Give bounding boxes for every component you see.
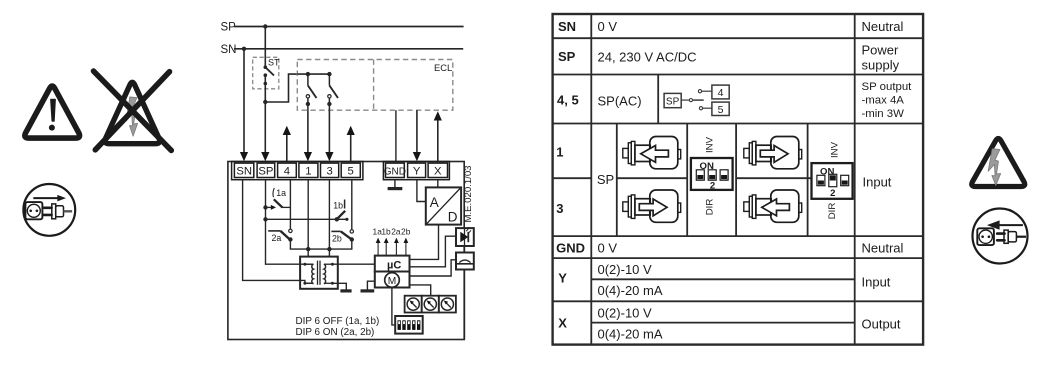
- terminal strip SN SP 4 1 3 5: [232, 162, 363, 180]
- junction ECL bus A: [306, 72, 310, 76]
- wire LED to button: [464, 246, 466, 253]
- wire SP drop lower: [264, 75, 266, 153]
- TABLE: [553, 14, 924, 345]
- DIP switch block: [395, 316, 423, 334]
- transformer T1: [300, 257, 338, 289]
- warning triangle (exclamation): [25, 86, 80, 138]
- crossed-out lightning triangle: [94, 71, 172, 150]
- svg-text:INV: INV: [704, 136, 715, 153]
- svg-text:0(2)-10 V: 0(2)-10 V: [598, 262, 653, 277]
- svg-text:5: 5: [718, 104, 724, 116]
- svg-text:SP: SP: [666, 97, 680, 108]
- svg-text:3: 3: [556, 201, 563, 216]
- converter A/D: [426, 187, 461, 224]
- wire terminal 5 drop: [351, 180, 353, 230]
- row divider 1/3 segments: [553, 177, 592, 179]
- svg-text:SP(AC): SP(AC): [598, 94, 642, 109]
- svg-text:1b: 1b: [381, 227, 391, 237]
- contact dot 1b: [345, 218, 348, 221]
- wire M to DIP switches: [392, 288, 395, 325]
- svg-text:INV: INV: [829, 141, 840, 158]
- arrow terminal X to ECL: [434, 111, 442, 161]
- svg-text:2a: 2a: [391, 227, 401, 237]
- wire A/D to uC: [410, 225, 439, 260]
- wire M to potentiometers: [410, 285, 431, 296]
- junction SP bus: [263, 24, 267, 28]
- actuator icon row3 direction left: [744, 190, 802, 222]
- svg-text:-min 3W: -min 3W: [862, 108, 905, 120]
- svg-text:2: 2: [710, 180, 715, 191]
- svg-text:GND: GND: [384, 166, 406, 177]
- sub divider row Y: [591, 278, 854, 280]
- svg-text:Input: Input: [863, 175, 892, 190]
- junction SN bus: [242, 47, 246, 51]
- wire SN bus: [234, 48, 463, 50]
- svg-text:3: 3: [326, 166, 332, 178]
- svg-text:DIR: DIR: [704, 199, 715, 216]
- SP output selector diagram: [664, 85, 729, 116]
- wire uC to ground: [367, 281, 374, 290]
- svg-text:1b: 1b: [333, 200, 343, 210]
- svg-text:4, 5: 4, 5: [557, 93, 579, 108]
- svg-text:SN: SN: [221, 44, 237, 56]
- arrow ECL to terminal Y: [413, 110, 421, 161]
- sub divider row 4,5: [657, 75, 659, 124]
- svg-text:Y: Y: [413, 166, 421, 178]
- svg-text:ST: ST: [268, 58, 280, 68]
- motor M: [375, 272, 410, 288]
- junction 1b pivot: [335, 217, 339, 221]
- svg-text:Input: Input: [862, 275, 891, 290]
- switch ST: [253, 57, 280, 89]
- wire bus219: [266, 218, 347, 220]
- svg-text:1: 1: [305, 166, 311, 178]
- table texts middle column: [597, 19, 697, 342]
- svg-text:A: A: [430, 195, 439, 210]
- junction SP switch 1a: [263, 205, 267, 209]
- arrow into SN terminal: [240, 152, 248, 161]
- arrow into terminal 3: [325, 152, 333, 161]
- table outer frame: [553, 14, 924, 345]
- switch 2a: [268, 231, 290, 243]
- junction SP bus219: [263, 217, 267, 221]
- push button S1: [456, 253, 474, 270]
- wire transformer to uC: [332, 263, 374, 265]
- ground right of transformer: [340, 289, 351, 292]
- junction 2a output: [288, 237, 292, 241]
- svg-text:DIP 6 ON (2a, 2b): DIP 6 ON (2a, 2b): [296, 327, 375, 338]
- contact circle 2b: [350, 230, 353, 233]
- junction 1 primary: [306, 247, 310, 251]
- svg-text:µC: µC: [387, 259, 401, 271]
- svg-text:0 V: 0 V: [598, 241, 618, 256]
- ground left of uC: [361, 289, 375, 292]
- svg-text:0(4)-20 mA: 0(4)-20 mA: [598, 327, 663, 342]
- wire terminal 1 drop: [307, 180, 309, 257]
- wire SP branch to ECL: [265, 74, 297, 102]
- svg-text:GND: GND: [556, 241, 585, 256]
- svg-text:SP: SP: [258, 166, 273, 178]
- svg-text:DIP 6 OFF (1a, 1b): DIP 6 OFF (1a, 1b): [296, 316, 380, 327]
- disconnect-plug circle icon: [23, 184, 75, 236]
- ICONS-LEFT: [23, 71, 171, 236]
- wire terminal 3 drop: [328, 180, 330, 257]
- svg-text:SP: SP: [221, 22, 237, 34]
- table texts last column: [862, 19, 904, 332]
- wire transformer to ground: [332, 283, 346, 290]
- terminal strip GND Y X: [383, 162, 449, 180]
- terminal labels GND Y X: [384, 166, 442, 178]
- switch ECL contact B: [327, 74, 338, 110]
- svg-text:2b: 2b: [401, 227, 411, 237]
- switch 1b: [333, 200, 345, 220]
- junction ECL bus B: [327, 72, 331, 76]
- svg-text:Y: Y: [558, 271, 567, 286]
- high voltage warning triangle: [972, 139, 1025, 187]
- ICONS-RIGHT: [972, 139, 1028, 264]
- LED D1: [456, 228, 474, 246]
- actuator icon row1 direction right: [744, 137, 802, 169]
- svg-text:24, 230 V AC/DC: 24, 230 V AC/DC: [598, 50, 697, 65]
- table column lines: [590, 14, 592, 345]
- junction SP branch: [263, 100, 267, 104]
- junction 3 primary: [327, 247, 331, 251]
- wire SN drop: [243, 49, 245, 153]
- table row lines: [553, 37, 924, 39]
- svg-text:X: X: [434, 166, 442, 178]
- svg-text:Neutral: Neutral: [862, 19, 904, 34]
- svg-text:4: 4: [718, 87, 724, 99]
- wire SP bus: [234, 26, 464, 28]
- svg-text:2a: 2a: [272, 233, 282, 243]
- wire ECL to terminal 1: [307, 110, 309, 153]
- ground at GND terminal: [388, 180, 403, 189]
- potentiometer bank: [405, 296, 456, 313]
- actuator icon row1 direction left: [623, 137, 681, 169]
- controller ECL box: [297, 60, 453, 111]
- arrow out of terminal 4: [283, 126, 291, 162]
- wire terminal 4 drop: [289, 180, 291, 229]
- svg-text:-max 4A: -max 4A: [862, 95, 905, 107]
- note SP output max min: [862, 81, 913, 120]
- microcontroller uC: [375, 256, 410, 272]
- arrow into terminal 1: [304, 152, 312, 161]
- svg-text:Output: Output: [862, 317, 901, 332]
- svg-text:1a: 1a: [276, 188, 286, 198]
- wire uC to LED: [410, 236, 457, 267]
- svg-text:Neutral: Neutral: [862, 241, 904, 256]
- wire ECL relay bus: [297, 73, 329, 75]
- wire ECL to terminal 3: [328, 110, 330, 153]
- switch ECL contact A: [306, 74, 317, 110]
- DIP pictogram 2 middle on: [812, 141, 853, 219]
- wire GND to ECL: [395, 110, 397, 161]
- connect-plug circle icon: [973, 209, 1028, 264]
- sub dividers rows 1,3: [616, 124, 618, 237]
- svg-text:5: 5: [348, 166, 354, 178]
- wire button to box corner: [464, 270, 466, 340]
- wire switched bus to primaries: [290, 239, 351, 249]
- svg-text:1: 1: [556, 145, 563, 160]
- wire X to A/D: [437, 180, 439, 188]
- wire Y to A/D: [417, 180, 426, 202]
- svg-text:SP: SP: [597, 172, 614, 187]
- svg-text:0(2)-10 V: 0(2)-10 V: [598, 306, 653, 321]
- svg-text:D: D: [448, 210, 458, 225]
- svg-text:M: M: [388, 276, 397, 287]
- actuator outer box: [228, 162, 464, 340]
- SCHEMATIC: [221, 22, 474, 340]
- svg-text:2: 2: [830, 188, 835, 199]
- wire SN to transformer: [243, 180, 314, 283]
- switch 2b: [331, 231, 352, 243]
- actuator icon row3 direction right: [623, 190, 681, 222]
- contact circle 2a: [289, 229, 292, 232]
- svg-text:Power: Power: [862, 43, 900, 58]
- wire uC to button: [410, 260, 457, 276]
- wire SP to transformer: [266, 180, 314, 264]
- uC input arrows 1a 1b 2a 2b: [373, 227, 411, 256]
- DIP pictogram 1 all off: [691, 136, 733, 215]
- svg-text:0(4)-20 mA: 0(4)-20 mA: [598, 283, 663, 298]
- svg-text:DIR: DIR: [827, 203, 838, 220]
- svg-text:X: X: [558, 316, 567, 331]
- svg-text:M.E.020.1/03: M.E.020.1/03: [463, 165, 474, 222]
- svg-text:2b: 2b: [332, 233, 342, 243]
- svg-text:0 V: 0 V: [598, 19, 618, 34]
- svg-text:SN: SN: [236, 166, 252, 178]
- svg-text:ECL: ECL: [434, 62, 452, 73]
- arrow out of terminal 5: [347, 126, 355, 162]
- table texts column 1: [556, 19, 585, 331]
- svg-text:SN: SN: [558, 19, 576, 34]
- svg-text:supply: supply: [862, 58, 900, 73]
- arrow into SP terminal: [261, 152, 269, 161]
- sub divider row X: [591, 322, 854, 324]
- junction 2b output: [350, 237, 354, 241]
- terminal labels SN SP 4 1 3 5: [236, 166, 354, 178]
- svg-text:4: 4: [284, 166, 290, 178]
- wire SP drop upper: [264, 27, 266, 68]
- switch 1a: [266, 188, 291, 210]
- svg-text:SP: SP: [558, 49, 576, 64]
- svg-text:SP output: SP output: [862, 81, 913, 93]
